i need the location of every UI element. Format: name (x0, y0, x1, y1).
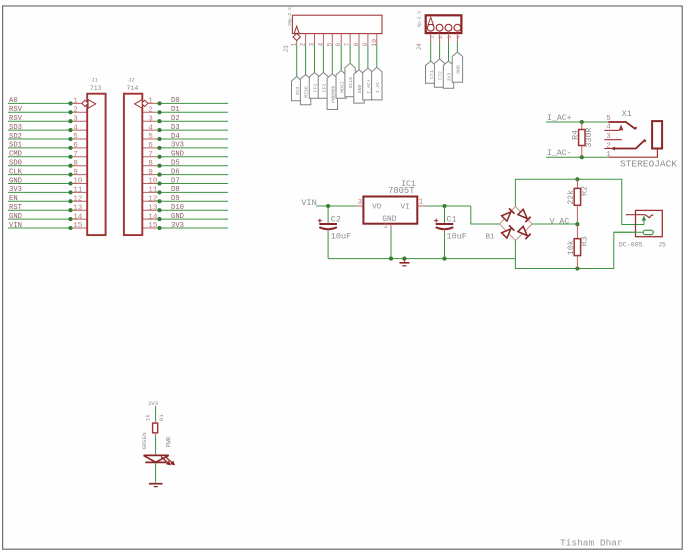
svg-text:7: 7 (344, 43, 351, 47)
svg-text:RST: RST (9, 204, 23, 212)
svg-text:4p-2.5: 4p-2.5 (417, 11, 423, 28)
svg-text:STEREOJACK: STEREOJACK (620, 158, 677, 169)
svg-text:6: 6 (73, 142, 78, 150)
svg-text:3V3: 3V3 (148, 400, 158, 407)
svg-text:J5: J5 (658, 241, 666, 248)
svg-text:5: 5 (326, 43, 333, 47)
svg-text:22k: 22k (566, 190, 576, 205)
svg-text:10: 10 (371, 39, 378, 47)
svg-text:CLK: CLK (9, 168, 23, 176)
svg-text:1: 1 (291, 43, 298, 47)
svg-text:713: 713 (90, 85, 102, 92)
svg-text:8: 8 (353, 43, 360, 47)
svg-text:VI: VI (401, 203, 410, 211)
svg-text:6: 6 (335, 43, 342, 47)
svg-text:10: 10 (148, 178, 158, 186)
svg-text:14: 14 (73, 213, 83, 221)
svg-text:J2: J2 (128, 76, 135, 83)
svg-text:D10: D10 (171, 204, 184, 212)
svg-text:3V3: 3V3 (171, 222, 184, 230)
svg-text:GREEN: GREEN (141, 432, 148, 449)
svg-text:11: 11 (73, 187, 83, 195)
svg-text:13: 13 (148, 204, 158, 212)
svg-text:15: 15 (73, 222, 83, 230)
svg-text:SD1: SD1 (9, 142, 22, 150)
svg-text:10k: 10k (566, 240, 576, 255)
svg-text:3: 3 (446, 35, 453, 38)
svg-text:2: 2 (437, 35, 444, 38)
svg-text:CMD: CMD (9, 151, 22, 159)
svg-text:9: 9 (362, 43, 369, 47)
svg-text:7: 7 (73, 151, 78, 159)
svg-text:RSV: RSV (9, 106, 23, 114)
svg-text:14: 14 (148, 213, 158, 221)
svg-text:3V3: 3V3 (171, 142, 184, 150)
svg-text:I_AC-: I_AC- (375, 79, 381, 94)
svg-text:10uF: 10uF (331, 232, 351, 242)
svg-text:5: 5 (73, 133, 78, 141)
svg-text:1k: 1k (145, 414, 152, 421)
svg-text:GND: GND (9, 213, 22, 221)
svg-text:2: 2 (73, 107, 78, 115)
svg-text:8: 8 (148, 160, 153, 168)
svg-text:C1: C1 (447, 215, 457, 225)
svg-text:8: 8 (73, 160, 78, 168)
svg-text:2: 2 (148, 107, 153, 115)
svg-text:9: 9 (73, 169, 78, 177)
svg-text:12: 12 (73, 196, 83, 204)
svg-text:D4: D4 (171, 133, 180, 141)
svg-text:D1: D1 (171, 106, 180, 114)
svg-text:EN: EN (9, 195, 18, 203)
svg-text:4: 4 (317, 43, 324, 47)
svg-text:GND: GND (171, 213, 184, 221)
svg-text:Tisham Dhar: Tisham Dhar (560, 538, 623, 549)
svg-text:D7: D7 (171, 177, 180, 185)
svg-text:D2: D2 (171, 115, 180, 123)
svg-text:4: 4 (148, 124, 153, 132)
svg-text:11: 11 (148, 187, 158, 195)
svg-text:PWR: PWR (166, 436, 173, 447)
svg-text:D0: D0 (171, 97, 180, 105)
svg-text:1: 1 (148, 98, 153, 106)
svg-text:DC-005: DC-005 (619, 241, 643, 248)
svg-text:RSV: RSV (9, 115, 23, 123)
svg-text:12: 12 (148, 196, 158, 204)
svg-text:GND: GND (9, 177, 22, 185)
svg-text:J4: J4 (416, 43, 423, 51)
svg-text:D3: D3 (171, 124, 180, 132)
svg-text:2: 2 (384, 223, 388, 230)
svg-text:GND: GND (456, 65, 462, 74)
svg-text:10: 10 (73, 178, 83, 186)
svg-text:714: 714 (127, 85, 139, 92)
svg-text:4: 4 (73, 124, 78, 132)
svg-text:J1: J1 (91, 76, 98, 83)
svg-text:C2: C2 (331, 215, 341, 225)
svg-text:5: 5 (148, 133, 153, 141)
svg-text:7805T: 7805T (388, 186, 414, 196)
svg-text:D6: D6 (171, 168, 180, 176)
svg-text:VIN: VIN (9, 222, 22, 230)
svg-text:VO: VO (372, 203, 382, 211)
svg-text:SD0: SD0 (9, 160, 22, 168)
svg-text:3: 3 (148, 115, 153, 123)
svg-text:D9: D9 (171, 195, 180, 203)
svg-text:2: 2 (606, 142, 610, 150)
svg-text:J3: J3 (283, 45, 290, 53)
svg-text:D5: D5 (171, 160, 180, 168)
svg-text:D8: D8 (171, 186, 180, 194)
svg-text:15: 15 (148, 222, 158, 230)
svg-text:3: 3 (309, 43, 316, 47)
svg-text:A0: A0 (9, 97, 18, 105)
svg-text:SD3: SD3 (9, 124, 22, 132)
svg-text:10uF: 10uF (447, 232, 467, 242)
svg-text:13: 13 (73, 204, 83, 212)
svg-text:R1: R1 (158, 414, 165, 421)
svg-text:7: 7 (148, 151, 153, 159)
svg-text:2: 2 (300, 43, 307, 47)
svg-text:10p-2.5: 10p-2.5 (287, 7, 293, 27)
svg-text:1: 1 (419, 199, 424, 207)
svg-text:3V3: 3V3 (9, 186, 22, 194)
svg-text:6: 6 (148, 142, 153, 150)
svg-text:R3: R3 (581, 236, 590, 246)
svg-text:R2: R2 (581, 186, 590, 196)
svg-text:X1: X1 (622, 110, 632, 119)
svg-text:R4: R4 (572, 130, 581, 140)
svg-text:VIN: VIN (301, 198, 317, 208)
svg-text:1: 1 (73, 98, 78, 106)
svg-text:SD2: SD2 (9, 133, 22, 141)
svg-text:V_AC: V_AC (550, 218, 570, 227)
svg-text:330R: 330R (585, 128, 594, 148)
svg-text:3: 3 (73, 115, 78, 123)
svg-text:3: 3 (358, 199, 362, 207)
svg-text:B1: B1 (486, 234, 495, 242)
svg-text:GND: GND (171, 151, 184, 159)
svg-text:9: 9 (148, 169, 153, 177)
